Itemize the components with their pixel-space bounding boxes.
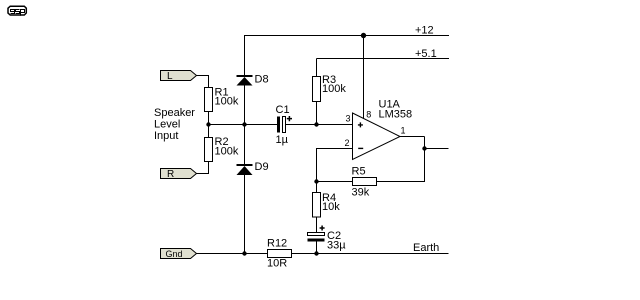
- svg-text:Speaker: Speaker: [154, 107, 195, 119]
- node D9 ground junction: [242, 251, 246, 255]
- svg-text:C1: C1: [276, 104, 290, 116]
- svg-text:33µ: 33µ: [327, 239, 346, 251]
- wire mid node to D9 cathode: [244, 125, 246, 165]
- resistor R12: [267, 238, 292, 270]
- svg-text:Earth: Earth: [413, 242, 439, 254]
- resistor R2: [205, 136, 239, 162]
- svg-text:100k: 100k: [215, 146, 239, 158]
- svg-text:1µ: 1µ: [276, 134, 289, 146]
- wire ground rail right: [292, 253, 449, 255]
- node R1-R2 mid junction: [206, 122, 210, 126]
- resistor R3: [313, 74, 347, 102]
- node +12 / pin8 junction: [361, 33, 365, 37]
- svg-text:Gnd: Gnd: [166, 249, 183, 259]
- wire pin 8 drop: [363, 36, 365, 119]
- node R3-C1 junction: [314, 122, 318, 126]
- label Speaker Level Input: [154, 107, 195, 142]
- wire D8 anode to mid node: [244, 86, 246, 125]
- wire output from vertex: [400, 136, 425, 138]
- op-amp U1: [353, 99, 413, 160]
- connector L: [161, 71, 197, 83]
- wire +5.1 rail: [317, 58, 450, 60]
- svg-text:D8: D8: [255, 74, 269, 86]
- wire R5 right to output drop: [377, 137, 425, 182]
- wire R5 left lead: [317, 181, 353, 183]
- svg-text:LM358: LM358: [379, 109, 413, 121]
- wire R4 to C2: [316, 217, 318, 233]
- wire D8 top to +12 corner: [244, 36, 246, 76]
- capacitor C2: [308, 226, 347, 252]
- svg-text:10k: 10k: [322, 201, 340, 213]
- svg-text:D9: D9: [255, 161, 269, 173]
- wire +12 rail: [244, 35, 449, 37]
- resistor R4: [313, 192, 341, 217]
- wire Gnd tag to R12: [197, 253, 268, 255]
- diode D9: [237, 161, 269, 175]
- svg-text:100k: 100k: [215, 96, 239, 108]
- svg-text:+12: +12: [415, 25, 434, 37]
- wire C2 to ground rail: [316, 242, 318, 254]
- wire R3 top lead: [316, 59, 318, 77]
- svg-text:R: R: [167, 169, 174, 180]
- svg-text:Level: Level: [154, 118, 180, 130]
- svg-text:1: 1: [401, 126, 406, 136]
- wire output stub: [425, 148, 449, 150]
- wire mid node horizontal: [209, 124, 278, 126]
- ESP logo: [8, 6, 26, 16]
- node diode mid junction: [242, 122, 246, 126]
- wire R4 top lead: [316, 182, 318, 193]
- wire R1 bottom lead: [208, 112, 210, 125]
- wire C1 out to pin 3: [286, 124, 353, 126]
- svg-text:39k: 39k: [352, 187, 370, 199]
- wire R2 top lead: [208, 125, 210, 138]
- svg-text:3: 3: [346, 113, 351, 123]
- svg-text:2: 2: [345, 138, 350, 148]
- svg-text:Input: Input: [154, 130, 178, 142]
- svg-text:L: L: [167, 71, 173, 82]
- wire D9 anode to ground rail: [244, 175, 246, 254]
- wire L tag to R1: [197, 76, 209, 88]
- svg-text:100k: 100k: [322, 83, 346, 95]
- svg-text:8: 8: [366, 110, 371, 120]
- resistor R1: [205, 87, 239, 112]
- node R4-R5 junction: [314, 179, 318, 183]
- svg-text:R12: R12: [267, 238, 287, 250]
- wire R2 bottom to R tag: [197, 162, 209, 174]
- svg-text:R5: R5: [352, 166, 366, 178]
- node C2 ground junction: [314, 251, 318, 255]
- svg-text:+5.1: +5.1: [415, 48, 437, 60]
- resistor R5: [352, 166, 377, 199]
- node output junction: [422, 146, 426, 150]
- connector R: [161, 169, 197, 181]
- connector Gnd: [161, 249, 197, 259]
- diode D8: [237, 74, 269, 86]
- wire R3 bottom lead: [316, 102, 318, 125]
- capacitor C1: [276, 104, 293, 146]
- svg-text:10R: 10R: [267, 258, 287, 270]
- wire pin 2 feedback: [317, 149, 353, 182]
